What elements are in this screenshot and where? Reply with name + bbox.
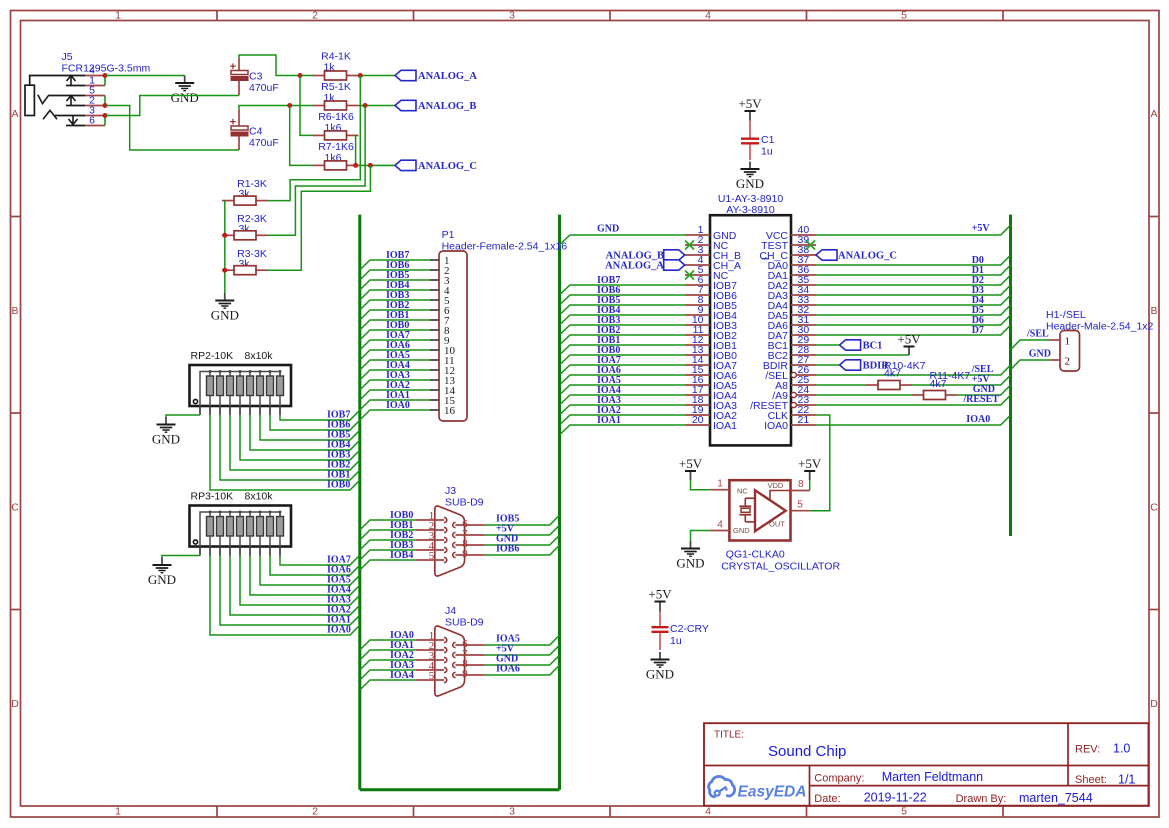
svg-text:C2-CRY: C2-CRY [670, 623, 709, 635]
wire U1 BDIR to port [816, 364, 840, 366]
junction R4 left [298, 73, 303, 78]
svg-text:2: 2 [312, 10, 318, 22]
svg-text:ANALOG_A: ANALOG_A [605, 261, 664, 272]
svg-text:1/1: 1/1 [1118, 773, 1135, 787]
svg-text:NC: NC [737, 487, 748, 496]
junction R5 right [363, 103, 368, 108]
wire net IOA2 to P1 pin 14 [360, 390, 430, 400]
ground GND at J5 [171, 76, 199, 106]
wire U1 DA7 to bus net D7 [816, 325, 1011, 335]
connector H1 /SEL Header-Male-2.54 1x2 [1046, 309, 1154, 371]
wire net IOA5 to P1 pin 11 [360, 360, 430, 370]
ground GND at C1 [736, 162, 764, 192]
wire RP3 pin to net IOA7 [280, 555, 360, 565]
wire net IOB2 to U1 pin 11 [560, 335, 686, 345]
wire net IOA7 to U1 pin 14 [560, 365, 686, 375]
svg-text:5: 5 [429, 670, 435, 682]
wire net IOA1 to J4 pin 2 [360, 650, 416, 660]
wire RP3 common to GND [162, 556, 200, 558]
svg-text:470uF: 470uF [249, 82, 279, 94]
svg-text:Sound Chip: Sound Chip [768, 743, 846, 760]
capacitor C1 1u [741, 121, 775, 161]
svg-text:Marten Feldtmann: Marten Feldtmann [882, 770, 983, 784]
svg-text:QG1-CLKA0: QG1-CLKA0 [726, 549, 785, 561]
svg-text:+5V: +5V [798, 456, 822, 471]
wire net IOB7 to U1 pin 6 [560, 285, 686, 295]
connector J4 SUB-D9 [416, 605, 485, 696]
svg-text:IOA0: IOA0 [966, 414, 990, 425]
port BC1 [840, 340, 861, 350]
wire net GND to U1 pin 1 [560, 235, 686, 245]
wire net IOB5 to P1 pin 3 [360, 280, 430, 290]
wire U1 /RESET to bus [816, 395, 1011, 405]
wire ANALOG_A row down to R1 [268, 76, 360, 201]
svg-text:8x10k: 8x10k [245, 350, 274, 362]
power +5V at QG1 pin 1 [679, 456, 703, 480]
wire net IOA4 to J4 pin 5 [360, 680, 416, 690]
svg-text:+5V: +5V [648, 587, 672, 602]
wire R4 to ANALOG_A [359, 75, 396, 77]
wire R7 to ANALOG_C [359, 164, 396, 166]
svg-text:H1-/SEL: H1-/SEL [1046, 309, 1086, 321]
bus bottom horizontal [360, 788, 560, 791]
junction R2 left [222, 233, 227, 238]
wire RP2 pin to net IOB4 [250, 415, 360, 450]
ground GND at RP3 [148, 558, 176, 588]
wire RP2 pin to net IOB0 [210, 415, 360, 490]
svg-text:/RESET: /RESET [962, 394, 999, 405]
port ANALOG_B at U1 pin 3 [664, 250, 685, 260]
wire net IOB4 to P1 pin 4 [360, 290, 430, 300]
svg-text:C1: C1 [761, 134, 775, 146]
wire RP3 pin to net IOA1 [220, 556, 360, 626]
wire net IOB6 to P1 pin 2 [360, 270, 430, 280]
wire ANALOG_B row down to R2 [268, 106, 365, 236]
svg-text:J5: J5 [62, 51, 73, 63]
svg-text:2019-11-22: 2019-11-22 [864, 791, 927, 805]
port ANALOG_A at U1 pin 4 [664, 260, 685, 270]
svg-text:9: 9 [462, 548, 468, 560]
junction J5 pin2 [103, 103, 108, 108]
svg-text:D7: D7 [972, 325, 984, 336]
wire +5V to QG1 pin 1 [691, 480, 710, 490]
wire net IOA3 to J4 pin 4 [360, 670, 416, 680]
svg-text:IOA4: IOA4 [390, 670, 414, 681]
capacitor C4 470uF [230, 110, 279, 151]
svg-text:OUT: OUT [769, 520, 785, 529]
svg-text:1: 1 [115, 10, 121, 22]
port BDIR [840, 360, 861, 370]
svg-text:A: A [1150, 108, 1157, 120]
svg-text:C: C [1150, 502, 1158, 514]
port ANALOG_C [395, 160, 416, 170]
junction R3 left [222, 268, 227, 273]
wire J3 pin 9 to net IOB6 [485, 545, 560, 555]
wire J5 pin4-pin1 join [104, 76, 106, 86]
svg-text:ANALOG_C: ANALOG_C [838, 251, 897, 262]
wire +5V to QG1 pin 8 [809, 480, 811, 491]
connector J5 FCR1295G-3.5mm audio jack [25, 51, 150, 127]
wire C3 positive to R4 row [239, 55, 313, 76]
wire J4 pin 8 to net GND [485, 655, 560, 665]
capacitor C3 470uF [230, 58, 279, 96]
svg-text:1u: 1u [670, 635, 682, 647]
wire J5 pin4 to GND [105, 75, 185, 77]
svg-text:8: 8 [798, 479, 804, 490]
wire net IOA3 to P1 pin 13 [360, 380, 430, 390]
svg-text:16: 16 [444, 405, 456, 417]
wire R1 R2 R3 common to GND [224, 201, 226, 293]
bus left vertical [358, 215, 361, 790]
wire net IOB0 to J3 pin 1 [360, 520, 416, 530]
wire RP2 pin to net IOB1 [220, 415, 360, 480]
svg-text:IOA1: IOA1 [597, 415, 621, 426]
wire RP3 pin to net IOA5 [260, 556, 360, 586]
wire U1 DA3 to bus net D3 [816, 285, 1011, 295]
wire U1 DA4 to bus net D4 [816, 295, 1011, 305]
svg-text:21: 21 [798, 414, 810, 426]
svg-text:GND: GND [148, 572, 176, 587]
wire J4 pin 9 to net IOA6 [485, 665, 560, 675]
power +5V at BC2 [897, 332, 921, 356]
junction J5 pin4 [103, 73, 108, 78]
svg-text:1: 1 [115, 806, 121, 818]
wire net IOA1 to U1 pin 20 [560, 425, 686, 435]
wire net /SEL to H1 pin 1 [1011, 340, 1051, 350]
wire J3 pin 7 to net +5V [485, 525, 560, 535]
wire J4 pin 7 to net +5V [485, 645, 560, 655]
wire net IOB6 to U1 pin 7 [560, 295, 686, 305]
svg-text:5: 5 [797, 500, 803, 511]
wire RP2 pin to net IOB2 [230, 415, 360, 470]
svg-text:GND: GND [646, 667, 674, 682]
capacitor C2-CRY 1u [652, 612, 709, 651]
ground GND at RP2 [152, 417, 180, 447]
wire net IOB4 to U1 pin 9 [560, 315, 686, 325]
svg-text:+5V: +5V [972, 223, 991, 234]
svg-text:SUB-D9: SUB-D9 [445, 617, 484, 629]
junction ANALOG_C row R6 branch [353, 163, 358, 168]
svg-text:IOA1: IOA1 [713, 420, 737, 432]
wire RP2 common to GND [166, 415, 200, 417]
svg-text:+5V: +5V [679, 456, 703, 471]
svg-text:3: 3 [509, 806, 515, 818]
wire RP3 pin to net IOA6 [270, 556, 360, 576]
wire RP2 pin to net IOB6 [270, 415, 360, 430]
wire net IOB2 to J3 pin 3 [360, 540, 416, 550]
wire net IOB0 to U1 pin 13 [560, 355, 686, 365]
wire RP2 pin to net IOB7 [280, 410, 360, 420]
svg-text:ANALOG_B: ANALOG_B [418, 101, 476, 112]
svg-text:+5V: +5V [738, 96, 762, 111]
wire QG1 GND pin 4 [691, 531, 710, 542]
resistor network RP3 10K [190, 491, 292, 556]
svg-text:GND: GND [1029, 349, 1051, 360]
svg-text:1: 1 [1065, 336, 1071, 348]
wire R6 left from R4 junction [300, 76, 313, 136]
svg-text:RP2-10K: RP2-10K [191, 350, 234, 362]
wire U1 DA6 to bus net D6 [816, 315, 1011, 325]
wire U1 DA0 to bus net D0 [816, 255, 1011, 265]
wire U1 BC2 to +5V [816, 354, 909, 356]
no-connect U1 pin 5 [685, 271, 694, 280]
wire R6 right down to ANALOG_C row [355, 135, 357, 165]
wire net IOB3 to U1 pin 10 [560, 325, 686, 335]
wire net IOA1 to P1 pin 15 [360, 400, 430, 410]
svg-text:RP3-10K: RP3-10K [191, 491, 234, 503]
svg-text:ANALOG_A: ANALOG_A [418, 71, 477, 82]
wire R10 to +5V bus entry [912, 375, 1011, 385]
svg-text:5: 5 [901, 806, 907, 818]
wire ANALOG_B flag stub [684, 254, 686, 256]
wire net IOB2 to P1 pin 6 [360, 310, 430, 320]
wire net IOB1 to J3 pin 2 [360, 530, 416, 540]
svg-text:marten_7544: marten_7544 [1019, 791, 1093, 805]
IC U1 AY-3-8910 [685, 193, 816, 445]
wire net IOA0 to P1 pin 16 [360, 410, 430, 420]
svg-text:GND: GND [171, 90, 199, 105]
wire net IOA0 to J4 pin 1 [360, 640, 416, 650]
svg-text:1: 1 [717, 479, 723, 490]
wire U1 DA1 to bus net D1 [816, 265, 1011, 275]
bus right vertical [558, 215, 561, 790]
svg-text:/SEL: /SEL [1026, 329, 1049, 340]
svg-text:9: 9 [462, 668, 468, 680]
wire net IOB0 to P1 pin 8 [360, 330, 430, 340]
svg-text:Sheet:: Sheet: [1075, 774, 1107, 786]
wire U1 CLK to oscillator OUT [810, 415, 830, 511]
wire net IOA2 to U1 pin 19 [560, 415, 686, 425]
svg-text:1u: 1u [761, 146, 773, 158]
ground GND at C2 [646, 652, 674, 682]
ground GND at QG1 [676, 541, 704, 571]
svg-text:BC1: BC1 [863, 341, 883, 352]
svg-text:C4: C4 [249, 126, 263, 138]
wire net IOB5 to U1 pin 8 [560, 305, 686, 315]
wire RP3 pin to net IOA4 [250, 556, 360, 596]
svg-text:470uF: 470uF [249, 137, 279, 149]
svg-text:GND: GND [597, 224, 619, 235]
wire J5 pin2 to C4 negative [105, 106, 239, 151]
wire U1 A8 to R10 [816, 384, 866, 386]
wire net IOB3 to J3 pin 4 [360, 550, 416, 560]
wire net IOA4 to P1 pin 12 [360, 370, 430, 380]
svg-text:TITLE:: TITLE: [714, 730, 744, 741]
svg-text:C3: C3 [249, 71, 263, 83]
svg-text:5: 5 [429, 550, 435, 562]
svg-text:IOA0: IOA0 [764, 420, 788, 432]
wire J3 pin 8 to net GND [485, 535, 560, 545]
svg-text:2: 2 [1065, 356, 1071, 368]
svg-text:3: 3 [509, 10, 515, 22]
svg-text:GND: GND [211, 308, 239, 323]
wire net IOA4 to U1 pin 17 [560, 395, 686, 405]
wire U1 /SEL to bus [816, 365, 1011, 375]
wire net IOB1 to P1 pin 7 [360, 320, 430, 330]
svg-text:C: C [11, 502, 19, 514]
power +5V at C1 [738, 96, 762, 121]
svg-text:5: 5 [901, 10, 907, 22]
svg-text:ANALOG_C: ANALOG_C [418, 161, 477, 172]
wire net IOB1 to U1 pin 12 [560, 345, 686, 355]
svg-text:J3: J3 [445, 485, 456, 497]
junction R4 right [358, 73, 363, 78]
wire net IOA6 to P1 pin 10 [360, 350, 430, 360]
ground GND below R3 [211, 293, 239, 323]
wire U1 /A9 to R11 [816, 394, 912, 396]
svg-text:J4: J4 [445, 605, 456, 617]
svg-text:Drawn By:: Drawn By: [956, 793, 1007, 805]
svg-text:D: D [1150, 698, 1158, 710]
svg-text:4: 4 [717, 520, 723, 531]
svg-text:SUB-D9: SUB-D9 [445, 497, 484, 509]
oscillator QG1 CLKA0 [710, 479, 810, 541]
wire U1 DA5 to bus net D5 [816, 305, 1011, 315]
wire RP3 pin to net IOA0 [210, 556, 360, 636]
svg-text:CRYSTAL_OSCILLATOR: CRYSTAL_OSCILLATOR [721, 561, 840, 573]
svg-text:20: 20 [692, 414, 704, 426]
wire J4 pin 6 to net IOA5 [485, 635, 560, 645]
svg-text:2: 2 [312, 806, 318, 818]
wire R5 to ANALOG_B [359, 105, 396, 107]
svg-text:Company:: Company: [814, 773, 864, 785]
svg-text:4k7: 4k7 [930, 378, 947, 390]
svg-text:GND: GND [676, 556, 704, 571]
svg-text:IOB6: IOB6 [496, 544, 519, 555]
wire RP3 pin to net IOA3 [240, 556, 360, 606]
svg-text:IOB0: IOB0 [327, 480, 350, 491]
junction R5 left [287, 103, 292, 108]
title block [704, 723, 1149, 806]
no-connect U1 pin 2 [685, 241, 694, 250]
connector P1 Header-Female-2.54 1x16 [430, 229, 567, 421]
power +5V at QG1 pin 8 [798, 456, 822, 480]
port ANALOG_C at U1 pin 38 [816, 250, 837, 260]
svg-text:+5V: +5V [897, 332, 921, 347]
svg-text:FCR1295G-3.5mm: FCR1295G-3.5mm [62, 63, 151, 75]
svg-text:B: B [11, 305, 18, 317]
svg-text:GND: GND [733, 526, 750, 535]
wire U1 DA2 to bus net D2 [816, 275, 1011, 285]
wire RP2 pin to net IOB5 [260, 415, 360, 440]
connector J3 SUB-D9 [416, 485, 485, 576]
svg-text:4: 4 [705, 10, 711, 22]
svg-text:GND: GND [152, 432, 180, 447]
wire C4 positive to R5 row [239, 106, 313, 110]
wire net IOB3 to P1 pin 5 [360, 300, 430, 310]
svg-text:4k7: 4k7 [884, 368, 901, 380]
svg-text:A: A [11, 108, 18, 120]
wire U1 BC1 to port [816, 344, 840, 346]
svg-text:6: 6 [89, 115, 95, 127]
wire net IOA5 to U1 pin 16 [560, 385, 686, 395]
no-connect U1 pin 39 [806, 241, 815, 250]
wire net IOA6 to U1 pin 15 [560, 375, 686, 385]
wire U1 IOA0 to bus [816, 415, 1011, 425]
svg-text:IOA0: IOA0 [386, 400, 410, 411]
svg-text:B: B [1150, 305, 1157, 317]
wire net IOA2 to J4 pin 3 [360, 660, 416, 670]
svg-text:D: D [11, 698, 19, 710]
wire J5 pin5-pin2 join [104, 96, 106, 106]
wire net GND to H1 pin 2 [1011, 360, 1051, 370]
wire net IOB4 to J3 pin 5 [360, 560, 416, 570]
svg-text:1.0: 1.0 [1113, 742, 1130, 756]
svg-text:P1: P1 [442, 229, 455, 241]
svg-text:GND: GND [736, 176, 764, 191]
wire ANALOG_C row down to R3 [268, 165, 370, 270]
junction J5 pin3 [103, 113, 108, 118]
svg-text:REV:: REV: [1075, 744, 1100, 756]
svg-text:Date:: Date: [814, 793, 840, 805]
junction ANALOG_C row R3 branch [368, 163, 373, 168]
port ANALOG_B top [395, 100, 416, 110]
bus far right at U1 [1009, 215, 1012, 536]
svg-text:IOA0: IOA0 [327, 625, 351, 636]
svg-text:8x10k: 8x10k [245, 491, 274, 503]
wire J3 pin 6 to net IOB5 [485, 515, 560, 525]
wire J5 pin3-pin6 join [104, 116, 106, 126]
port ANALOG_A [395, 70, 416, 80]
wire net IOA3 to U1 pin 18 [560, 405, 686, 415]
svg-text:EasyEDA: EasyEDA [738, 784, 807, 801]
EasyEDA logo [709, 776, 807, 800]
svg-text:IOB4: IOB4 [390, 550, 413, 561]
wire J5 pin3 to C3 negative [105, 96, 239, 116]
resistor network RP2 10K [190, 350, 292, 415]
wire net IOA7 to P1 pin 9 [360, 340, 430, 350]
svg-text:IOA6: IOA6 [496, 664, 520, 675]
wire R11 to GND bus entry [958, 385, 1011, 395]
svg-text:VDD: VDD [768, 481, 784, 490]
wire RP3 pin to net IOA2 [230, 556, 360, 616]
svg-text:4: 4 [705, 806, 711, 818]
wire U1 VCC to +5V bus [816, 225, 1011, 235]
wire net IOB7 to P1 pin 1 [360, 260, 430, 270]
wire RP2 pin to net IOB3 [240, 415, 360, 460]
power +5V at C2 [648, 587, 672, 612]
wire R7 left from R5 junction [290, 106, 313, 166]
